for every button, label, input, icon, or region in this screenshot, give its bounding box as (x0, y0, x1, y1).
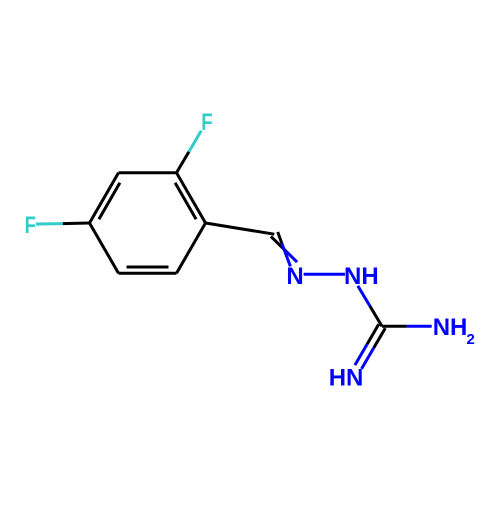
double bond C=NH line 1 nitrogen half (blue) (355, 344, 367, 365)
benzene ring inner double line C1=C2 (175, 183, 196, 219)
bond C2-F (fluorine half, teal) (189, 131, 201, 152)
benzene ring inner double line C3=C4 (99, 183, 120, 219)
bond NH-C nitrogen half (blue) (358, 286, 370, 306)
benzene ring edge C6-C1 (177, 223, 206, 273)
benzene ring edge C5-C6 (119, 272, 177, 275)
double bond C=NH line 1 carbon half (black) (367, 324, 379, 344)
bond NH-C carbon half (black) (370, 306, 382, 326)
bond N1-NH (blue) (304, 273, 345, 276)
svg-text:NH: NH (433, 314, 468, 341)
benzene ring edge C1-C2 (177, 173, 206, 223)
bond C4-F (carbon half, black) (63, 222, 90, 226)
crossed double bond CH=N line A nitrogen half (blue) (286, 252, 297, 263)
svg-text:2: 2 (467, 331, 475, 348)
bond C1-CH (benzylidene) (206, 223, 275, 234)
bond C4-F (fluorine half, teal) (36, 222, 63, 225)
bond C-NH2 carbon half (black) (382, 325, 407, 328)
bond C2-F (carbon half, black) (177, 152, 189, 173)
crossed double bond CH=N line B carbon half (black) (278, 232, 282, 244)
double bond C=NH line 2 nitrogen half (blue) (362, 348, 374, 369)
svg-text:F: F (201, 109, 212, 136)
benzene ring inner double line C5=C6 (127, 266, 169, 269)
bond C-NH2 nitrogen half (blue) (407, 325, 432, 328)
svg-text:NH: NH (344, 263, 379, 290)
svg-text:N: N (286, 263, 303, 290)
double bond C=NH line 2 carbon half (black) (374, 328, 386, 348)
benzene ring edge C4-C5 (90, 223, 119, 273)
benzene ring edge C3-C4 (90, 173, 119, 223)
crossed double bond CH=N line A carbon half (black) (271, 236, 286, 251)
svg-text:F: F (25, 212, 36, 239)
svg-text:HN: HN (329, 365, 364, 392)
crossed double bond CH=N line B nitrogen half (blue) (282, 244, 291, 267)
benzene ring edge C2-C3 (119, 171, 177, 174)
